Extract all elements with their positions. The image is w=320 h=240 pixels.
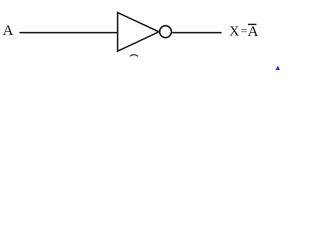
svg-text:=: = — [240, 24, 247, 38]
svg-text:A: A — [248, 24, 259, 40]
svg-text:X: X — [229, 25, 239, 40]
svg-text:A: A — [3, 23, 14, 39]
